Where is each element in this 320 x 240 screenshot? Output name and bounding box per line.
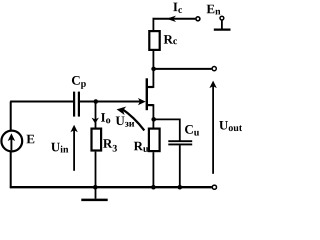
wire input top from rail to Cp [10, 101, 73, 103]
resistor Ru [149, 129, 160, 152]
label Ic [173, 3, 182, 13]
wire Cu stem top [179, 119, 181, 141]
capacitor Cp [74, 92, 79, 117]
wire node A down to R3 [95, 102, 97, 128]
junction node R3 ground [93, 185, 98, 190]
junction node Ru ground [151, 185, 156, 190]
arrow U_in pointing up [70, 125, 77, 171]
terminal circle top rail [196, 17, 200, 21]
arrow Io pointing down [92, 118, 99, 124]
label Uout [219, 121, 242, 131]
junction node under Cp [94, 99, 99, 104]
arrow Ic on top rail pointing left [166, 16, 176, 22]
terminal circle collector output [212, 67, 216, 71]
arrow U_out pointing up [209, 81, 216, 174]
label Uin [51, 143, 68, 153]
terminal En with ground bar [214, 16, 231, 29]
transistor VT1 [138, 78, 153, 110]
label Cu [185, 125, 199, 136]
wire Rc bottom to collector node [152, 51, 154, 69]
wire node B branch to Cu [153, 118, 180, 120]
resistor R3 [92, 129, 102, 151]
resistor Rc [149, 31, 159, 50]
wire bottom rail [10, 186, 212, 188]
label Cp [72, 76, 86, 89]
junction node B emitter [151, 117, 156, 122]
wire Cp to transistor base [80, 101, 141, 103]
label R3 [103, 139, 117, 151]
wire Ru bottom to ground rail [152, 152, 154, 187]
wire R3 bottom to ground rail [95, 152, 97, 188]
label E [27, 135, 35, 144]
label Ru [134, 142, 149, 152]
ground symbol [81, 187, 107, 200]
terminal circle bottom output [212, 185, 216, 189]
capacitor Cu [168, 141, 192, 144]
label Rc [164, 35, 177, 44]
wire collector vertical into transistor [152, 69, 154, 88]
current source E [1, 131, 22, 152]
wire top corner down to Rc [152, 18, 154, 30]
label En [207, 5, 221, 15]
junction node collector [151, 67, 156, 72]
arrow U_3u curved [117, 107, 145, 131]
label Io [101, 113, 110, 123]
label U3u [116, 117, 135, 127]
wire top rail Ic [153, 18, 196, 20]
wire collector node to output terminal [153, 68, 211, 70]
base arrowhead into bar [138, 98, 146, 105]
wire emitter vertical down to node B [152, 104, 154, 127]
junction node Cu ground [178, 185, 183, 190]
wire left rail vertical [10, 102, 12, 189]
wire Cu stem bottom [179, 145, 181, 187]
